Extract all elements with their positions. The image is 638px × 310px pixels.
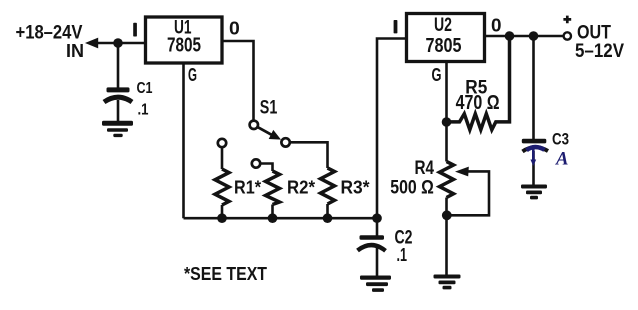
node R4 bottom junction <box>442 210 452 220</box>
wire R2 top lead <box>260 164 273 172</box>
switch S1 arm <box>258 127 281 139</box>
node output junction C3 <box>529 31 539 41</box>
op-amp U1 regulator box 7805 <box>146 17 223 64</box>
wire U2 ground down <box>445 61 448 122</box>
wire U1 ground line down <box>182 63 185 218</box>
wire bottom bus <box>184 217 378 220</box>
svg-text:7805: 7805 <box>426 35 462 57</box>
resistor R2 <box>266 171 280 205</box>
wire input arrow to junction <box>97 42 146 45</box>
svg-text:S1: S1 <box>260 97 278 118</box>
svg-text:IN: IN <box>66 41 84 61</box>
op-amp U2 regulator box 7805 <box>407 14 485 62</box>
input arrowhead <box>85 38 98 49</box>
svg-text:G: G <box>432 65 442 85</box>
terminal circle R1 top <box>218 139 226 147</box>
terminal circle OUT <box>564 32 571 39</box>
node U2 ground junction <box>442 117 452 127</box>
svg-text:*SEE TEXT: *SEE TEXT <box>184 264 267 284</box>
wire R2 bottom lead <box>271 205 274 219</box>
wire R1 top lead <box>221 147 224 169</box>
wire R3 bottom lead <box>326 204 329 218</box>
resistor R5 <box>447 36 510 130</box>
wiper of R4 <box>450 167 489 216</box>
capacitor C1 <box>104 87 132 121</box>
potentiometer R4 <box>440 162 454 198</box>
svg-text:.1: .1 <box>397 244 408 265</box>
svg-text:U2: U2 <box>434 14 452 36</box>
wire C3 from output <box>532 36 535 141</box>
ground below C2 <box>360 276 391 292</box>
svg-text:R3*: R3* <box>341 178 370 198</box>
resistor R3 <box>321 168 335 204</box>
node input junction <box>113 38 123 48</box>
resistor R1 <box>215 169 229 205</box>
svg-text:0: 0 <box>491 14 502 35</box>
svg-text:5–12V: 5–12V <box>575 41 624 62</box>
node bus junction R3 <box>323 213 333 223</box>
wire bus down to C2 <box>376 218 379 236</box>
capacitor C3 <box>522 139 548 185</box>
svg-text:R2*: R2* <box>287 178 315 198</box>
wire U2 input down to bus <box>377 39 408 219</box>
ground below R4 <box>434 275 461 290</box>
label + OUT 5-12V <box>563 16 624 62</box>
label R4 500ohm <box>390 157 434 198</box>
label C2 .1 <box>395 227 413 265</box>
svg-text:A: A <box>555 150 569 170</box>
pin I of U1 <box>133 23 137 37</box>
svg-text:C3: C3 <box>552 130 569 149</box>
wire U2 output <box>486 35 563 38</box>
svg-text:G: G <box>188 65 197 85</box>
node IN label +18-24V <box>16 23 85 62</box>
wire junction down to C1 <box>117 45 120 88</box>
label C1 .1 <box>137 80 153 119</box>
svg-text:R1*: R1* <box>234 178 261 198</box>
terminal circle R2 top <box>252 159 260 167</box>
wire U2 ground junction to R4 <box>445 122 448 162</box>
svg-text:500 Ω: 500 Ω <box>390 177 434 199</box>
switch S1 pole contact <box>250 121 258 129</box>
wire R1 bottom lead <box>221 205 224 218</box>
svg-text:.1: .1 <box>138 102 149 119</box>
ground below C3 <box>521 185 547 200</box>
wire S1 throw to R3 top <box>290 142 328 168</box>
wire R4 bottom lead <box>445 198 448 216</box>
node bus junction R1 <box>217 213 227 223</box>
annotation blue arrow <box>527 147 545 150</box>
svg-text:0: 0 <box>229 18 240 39</box>
node bus junction C2 <box>372 213 382 223</box>
ground below C1 <box>102 121 133 137</box>
wire R4 to ground <box>445 215 448 275</box>
pin I of U2 <box>394 20 398 33</box>
node output junction R5 <box>505 31 515 41</box>
svg-text:7805: 7805 <box>167 35 201 57</box>
label R5 470ohm <box>456 76 500 114</box>
wire U1 output to S1 <box>222 41 254 120</box>
svg-text:470 Ω: 470 Ω <box>456 92 500 114</box>
capacitor C2 <box>358 235 386 276</box>
node bus junction R2 <box>268 213 278 223</box>
switch S1 throw contact <box>281 138 289 146</box>
svg-text:C1: C1 <box>137 80 153 97</box>
